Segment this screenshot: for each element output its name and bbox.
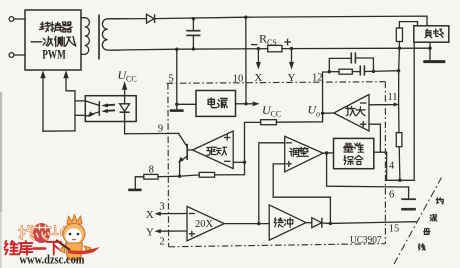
node Ucc bbox=[244, 102, 247, 105]
wire reference right to divider bbox=[374, 151, 387, 153]
wire pin11 node down to R6 bbox=[398, 105, 400, 133]
node adjust output bbox=[325, 151, 328, 154]
wire pin 5 vertical bbox=[176, 49, 178, 104]
resistor R6 (vertical) bbox=[396, 133, 402, 147]
driver amp 驱动 (points left) bbox=[193, 131, 234, 169]
optocoupler U2 box bbox=[85, 96, 136, 122]
X input arrow (pin 3) bbox=[158, 213, 187, 215]
wire comp bottom branch bbox=[329, 71, 339, 73]
svg-text:15: 15 bbox=[389, 224, 400, 235]
node load/rail bbox=[428, 47, 431, 50]
wire R2 to emitter node bbox=[180, 175, 200, 176]
label 缓冲 bbox=[274, 218, 293, 227]
adjust amp 调整 (points right) bbox=[285, 136, 323, 172]
transformer secondary winding bbox=[102, 19, 120, 50]
ground at pin 5 bbox=[176, 104, 178, 110]
arrow to Y bbox=[291, 49, 293, 64]
wire rail down through comp node to pin 11 bbox=[398, 48, 401, 104]
wire power output bbox=[236, 103, 247, 105]
wire adjust minus input from share bus bbox=[259, 143, 285, 224]
wire loop bottom bbox=[43, 130, 75, 132]
svg-text:CC: CC bbox=[126, 75, 137, 84]
wire R7 bottom to rail bbox=[398, 42, 400, 49]
wire stubs to optocoupler bbox=[75, 100, 85, 102]
arrow to X bbox=[257, 49, 259, 64]
emitter resistor R2 bbox=[199, 172, 214, 177]
minus sign bbox=[252, 44, 257, 46]
wire C3 to pin11 node bbox=[365, 70, 398, 73]
load resistor R7 (vertical, top right) bbox=[396, 28, 402, 42]
node driver feedback bbox=[243, 161, 246, 164]
label 负载 bbox=[425, 29, 443, 38]
label 放大 bbox=[346, 107, 365, 116]
wire pin 6 from adjust output bbox=[327, 153, 409, 187]
capacitor C4 (pin 6) bbox=[408, 187, 410, 198]
share bus diagonal bbox=[394, 178, 442, 265]
svg-text:10: 10 bbox=[233, 74, 244, 85]
20X current amplifier bbox=[187, 206, 224, 241]
opto LED bbox=[124, 96, 126, 104]
ground at pin 8 bbox=[128, 189, 141, 192]
watermark pen bbox=[56, 240, 70, 250]
Ucc arrow above opto bbox=[124, 88, 126, 96]
load box 负载 bbox=[414, 26, 449, 42]
svg-text:3: 3 bbox=[159, 202, 164, 213]
adjust + sign bbox=[286, 162, 291, 167]
node comp to sense bbox=[397, 69, 400, 72]
label 转换器 bbox=[40, 22, 73, 32]
capacitor C3 (comp) bbox=[359, 65, 361, 75]
label 驱动 bbox=[207, 147, 227, 155]
label 基准 bbox=[344, 143, 364, 152]
svg-text:UC3907: UC3907 bbox=[350, 234, 382, 246]
Y input arrow (pin 2) bbox=[158, 230, 187, 232]
wire driver feedback bbox=[233, 161, 244, 163]
wire divider node line bbox=[387, 42, 415, 180]
svg-text:6: 6 bbox=[389, 190, 394, 201]
input terminal T2 bbox=[9, 53, 14, 58]
wire PWM feedback arrow 2 bbox=[66, 77, 75, 131]
bottom output rail (left of Rcs) bbox=[112, 49, 268, 50]
wire load bottom to rail bbox=[429, 42, 431, 48]
wire comp top branch left bbox=[329, 58, 350, 71]
resistor R5 (comp) bbox=[339, 69, 352, 74]
amp plus wire to reference bbox=[369, 124, 380, 152]
watermark text 找芯片 bbox=[19, 225, 66, 240]
watermark text 维库一下 bbox=[5, 241, 61, 255]
wire R3 to ground bbox=[135, 177, 144, 189]
bottom rail right of Rcs bbox=[282, 47, 430, 49]
wire secondary top to diode bbox=[112, 18, 147, 20]
opto light arrows bbox=[107, 104, 116, 107]
node at ground/power junction bbox=[175, 103, 178, 106]
wire pin 12 vertical bbox=[323, 72, 330, 113]
capacitor C2 (top comp) bbox=[350, 52, 352, 63]
output filter capacitor C1 bbox=[192, 19, 194, 31]
pin 10 node on top rail bbox=[244, 16, 247, 19]
wire node down to emitter resistor line bbox=[215, 162, 245, 175]
watermark mascot bbox=[59, 215, 91, 261]
wire PWM feedback arrow 1 bbox=[42, 77, 44, 132]
wire emitter down bbox=[179, 162, 181, 176]
converter primary & PWM box bbox=[25, 10, 81, 70]
scan edge smudge bbox=[0, 92, 2, 212]
20X + sign bbox=[189, 231, 194, 236]
svg-text:Y: Y bbox=[146, 227, 154, 239]
ground at load bbox=[429, 48, 431, 61]
rectifier diode D1 bbox=[147, 14, 155, 23]
svg-text:11: 11 bbox=[387, 92, 397, 103]
svg-text:9: 9 bbox=[158, 124, 163, 135]
amp - sign bbox=[361, 102, 366, 104]
reference block 基准综合 bbox=[334, 138, 374, 168]
wire LED cathode to pin 9 bbox=[125, 122, 179, 134]
label 调整 bbox=[290, 148, 309, 157]
emitter node bbox=[178, 175, 181, 178]
label 一次侧及 bbox=[31, 37, 76, 47]
current sense resistor Rcs bbox=[268, 45, 282, 51]
wire to power block bbox=[177, 103, 196, 105]
pin 8 resistor R3 bbox=[144, 174, 158, 179]
wire R6 down to node bbox=[398, 147, 401, 181]
wire T1 to PWM box bbox=[14, 18, 25, 20]
node 20X output / adjust minus bbox=[257, 222, 260, 225]
driver + sign bbox=[225, 135, 230, 140]
node dots on rails at C1 bbox=[192, 17, 195, 20]
svg-text:o: o bbox=[316, 110, 320, 119]
svg-text:12: 12 bbox=[312, 73, 323, 84]
transformer primary winding bbox=[81, 18, 89, 55]
wire R5 to C3 bbox=[352, 71, 359, 73]
svg-text:www.dzsc.com: www.dzsc.com bbox=[20, 253, 85, 267]
wire pin 15 share bus bbox=[330, 222, 415, 224]
node share bus bbox=[329, 222, 332, 225]
label 综合 bbox=[344, 156, 363, 165]
svg-text:4: 4 bbox=[389, 161, 395, 172]
amp + sign bbox=[361, 122, 366, 127]
wire pin 10 vertical bbox=[245, 17, 247, 104]
node comp merge bbox=[372, 70, 375, 73]
driver - sign bbox=[225, 160, 230, 162]
resistor R4 bbox=[261, 120, 277, 125]
wire T2 to PWM box bbox=[14, 54, 25, 56]
top output rail bbox=[155, 16, 427, 26]
wire adjust output to reference bbox=[323, 152, 334, 154]
wire D2 to share bus node bbox=[322, 222, 331, 224]
label 电源 bbox=[208, 98, 227, 108]
20X - sign bbox=[189, 213, 194, 215]
input terminal T1 bbox=[9, 17, 14, 22]
transformer core bbox=[98, 15, 100, 60]
wire adjust plus input from buffer bbox=[273, 164, 330, 224]
svg-text:20X: 20X bbox=[195, 219, 214, 230]
wire R4 to driver feedback node bbox=[245, 122, 261, 162]
node X on rail bbox=[257, 47, 260, 50]
label 均流母线 bbox=[418, 198, 443, 250]
node below R6 bbox=[398, 179, 401, 182]
wire comp top branch right bbox=[356, 58, 373, 71]
UC3907 IC boundary dash-dot box bbox=[167, 82, 386, 84]
svg-text:CC: CC bbox=[271, 110, 282, 119]
diode D2 after buffer bbox=[306, 222, 312, 224]
wire R7 top jog to load box bbox=[399, 22, 417, 28]
Ucc direction arrow bbox=[246, 103, 255, 105]
power block 电源 bbox=[196, 91, 236, 117]
node Uo at amp output bbox=[321, 112, 324, 115]
wire 20X output bbox=[224, 223, 269, 225]
svg-text:2: 2 bbox=[159, 237, 164, 248]
svg-text:PWM: PWM bbox=[42, 48, 66, 62]
watermark red disc bbox=[33, 223, 51, 243]
svg-text:X: X bbox=[146, 209, 154, 221]
wire Uo to R4 bbox=[276, 113, 322, 122]
opto phototransistor bbox=[98, 101, 100, 116]
node on bottom rail at sense divider bbox=[398, 47, 401, 50]
buffer amp 缓冲 bbox=[269, 205, 306, 240]
pin 5 node on bottom rail bbox=[175, 48, 178, 51]
wire amp minus to pin 11 bbox=[369, 104, 396, 106]
wire base stub bbox=[187, 149, 192, 151]
adjust - sign bbox=[287, 142, 292, 144]
wire apex to node bbox=[323, 112, 334, 114]
node Y on rail bbox=[290, 47, 293, 50]
watermark red brush stroke bbox=[68, 247, 100, 254]
plus sign bbox=[285, 39, 290, 44]
svg-text:8: 8 bbox=[149, 165, 154, 176]
svg-text:5: 5 bbox=[168, 74, 173, 85]
wire emitter node to pin8 resistor bbox=[158, 175, 180, 178]
voltage amplifier 放大 (points left) bbox=[334, 95, 369, 132]
transistor Q1 bbox=[186, 144, 188, 160]
node comp split bbox=[328, 70, 331, 73]
